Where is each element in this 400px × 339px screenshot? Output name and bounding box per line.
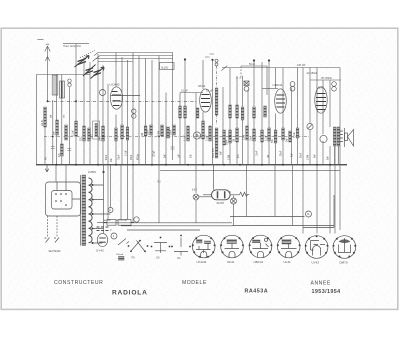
svg-text:10nF: 10nF xyxy=(251,135,253,141)
svg-text:ANNEE: ANNEE xyxy=(311,281,331,287)
resistor R18 xyxy=(196,108,199,118)
label Pour circuit PU overline xyxy=(63,43,89,45)
svg-text:25nF: 25nF xyxy=(227,139,229,145)
resistor zigzag xyxy=(240,192,250,196)
svg-text:5nF: 5nF xyxy=(221,150,223,155)
socket UBC41 base view xyxy=(249,235,273,258)
svg-text:1953/1954: 1953/1954 xyxy=(312,289,341,295)
socket UL41 base view xyxy=(277,235,301,258)
resistor R16 xyxy=(184,106,187,118)
wire top-right B+ xyxy=(222,67,340,69)
terminal block AL150 xyxy=(160,63,175,70)
svg-text:BT 250uF: BT 250uF xyxy=(322,77,333,80)
junction dots top xyxy=(47,58,271,173)
terminal TA circle xyxy=(306,211,312,217)
svg-text:40pF: 40pF xyxy=(106,154,108,160)
ganged link dotted xyxy=(80,51,95,58)
electrolytic box 10uF xyxy=(93,121,100,139)
svg-text:0,1uF: 0,1uF xyxy=(185,135,187,141)
svg-text:25nF: 25nF xyxy=(131,154,133,160)
registration tick top-left xyxy=(38,39,44,41)
svg-text:CONSTRUCTEUR: CONSTRUCTEUR xyxy=(54,280,103,286)
chassis arrow xyxy=(45,165,49,172)
svg-text:UCH42: UCH42 xyxy=(110,82,120,86)
wire lamp L1 lead xyxy=(195,200,197,223)
svg-text:8uF: 8uF xyxy=(328,155,330,160)
capacitor C3 xyxy=(51,146,55,148)
wafer switch PO xyxy=(128,240,149,253)
resistor R30 xyxy=(253,129,256,141)
capacitor C5 xyxy=(171,147,175,149)
wire ballast xyxy=(97,221,134,223)
wire IF link xyxy=(180,92,203,94)
resistor R9c xyxy=(126,127,129,140)
antenna xyxy=(45,44,50,61)
wire AF drops xyxy=(247,165,293,226)
svg-text:0,1uF: 0,1uF xyxy=(294,132,296,138)
svg-text:UBC41: UBC41 xyxy=(273,83,283,87)
resistor R36 xyxy=(289,131,292,142)
switch link dash-dot xyxy=(216,66,218,125)
wire detector link xyxy=(262,88,278,90)
svg-text:50uF: 50uF xyxy=(301,152,303,158)
AVC line dash-dot lower xyxy=(44,136,310,138)
IF transformer can circle xyxy=(193,132,200,139)
junction dots AVC lower xyxy=(52,136,231,138)
svg-text:6,3V: 6,3V xyxy=(192,190,197,192)
dial lamp L2 xyxy=(231,198,237,204)
transformer secondary winding xyxy=(89,178,93,243)
capacitor C4 xyxy=(67,148,71,150)
svg-text:1M: 1M xyxy=(268,155,270,158)
resistor R5 xyxy=(75,121,78,136)
svg-text:8uF: 8uF xyxy=(292,152,294,157)
ballast box 2 xyxy=(118,220,131,226)
vertical wires UF41 section xyxy=(180,60,248,194)
wire primary link xyxy=(310,79,341,81)
svg-text:0,5M: 0,5M xyxy=(159,131,161,136)
svg-text:25nF: 25nF xyxy=(281,150,283,156)
socket DM70 base view xyxy=(333,236,357,259)
thermistor circle xyxy=(111,233,117,239)
wire antenna to AVC line xyxy=(47,61,49,102)
resistor R22 xyxy=(223,130,226,145)
junction dot bus xyxy=(55,164,331,166)
svg-text:0,1uF: 0,1uF xyxy=(126,150,128,156)
resistor R13 xyxy=(167,127,170,138)
winding lead wires xyxy=(92,185,110,243)
tuning capacitor CV3 xyxy=(91,67,105,79)
trimmer C2 xyxy=(68,83,71,86)
svg-text:TC: TC xyxy=(228,192,231,194)
svg-text:50 uF: 50 uF xyxy=(249,63,256,66)
IF coil column xyxy=(215,88,218,115)
resistor R11 xyxy=(150,125,153,135)
resistor R1 xyxy=(44,107,47,127)
wire heater chain xyxy=(127,229,200,231)
svg-text:TA: TA xyxy=(307,213,310,216)
resistor R27 xyxy=(241,107,244,120)
svg-text:2N70: 2N70 xyxy=(217,201,225,205)
voltage selector box xyxy=(46,182,81,216)
AVC line dash-dot upper xyxy=(48,100,197,102)
tube UCH42 envelope xyxy=(110,87,140,109)
wire heater to sockets xyxy=(110,165,112,208)
resistor R26 xyxy=(236,128,239,142)
tuning capacitor CV2 xyxy=(83,65,96,77)
coil L2 box xyxy=(60,81,65,98)
svg-text:Pour circuit PU: Pour circuit PU xyxy=(64,44,81,48)
svg-text:250mA: 250mA xyxy=(116,253,123,256)
svg-text:RA453A: RA453A xyxy=(245,289,269,295)
dial lamp L1 xyxy=(193,194,211,200)
metal rectifier 2N70 xyxy=(203,190,240,200)
output transformer T2 xyxy=(333,127,339,165)
svg-text:ant: ant xyxy=(50,114,53,118)
resistor R24 xyxy=(229,130,232,143)
svg-text:UL41: UL41 xyxy=(284,260,292,264)
svg-text:UCH42: UCH42 xyxy=(197,260,207,264)
socket UY42 base view xyxy=(305,235,329,258)
resistor R23 xyxy=(229,105,232,118)
svg-text:UF41: UF41 xyxy=(227,260,235,264)
volume potentiometer circle xyxy=(307,123,313,129)
switch contact a xyxy=(215,59,218,62)
svg-text:UL41: UL41 xyxy=(317,85,325,89)
power transformer core xyxy=(80,175,85,246)
svg-text:UY42: UY42 xyxy=(312,260,320,264)
svg-text:1nF: 1nF xyxy=(179,153,181,158)
svg-text:DM70: DM70 xyxy=(340,260,348,264)
resistor R19 xyxy=(202,121,205,139)
resistor R35 xyxy=(282,128,285,140)
svg-text:RADIOLA: RADIOLA xyxy=(112,289,148,296)
svg-text:1M: 1M xyxy=(234,139,236,142)
resistor R31 xyxy=(261,130,264,142)
resistor R29 xyxy=(253,107,256,118)
secondary bus xyxy=(160,169,340,171)
wire lamp L2 lead xyxy=(233,196,235,226)
svg-text:AC 150uF: AC 150uF xyxy=(307,72,318,75)
resistor R33 xyxy=(268,128,271,141)
resistor R2 xyxy=(56,120,59,135)
svg-text:UBC41: UBC41 xyxy=(254,260,264,264)
wire PU drop xyxy=(75,44,77,165)
resistor R9b xyxy=(115,128,118,141)
wire rectifier drop xyxy=(213,165,215,190)
svg-text:10nF: 10nF xyxy=(257,150,259,156)
svg-text:MODELE: MODELE xyxy=(182,280,207,286)
power switch diagonal xyxy=(222,66,228,71)
resistor R14 xyxy=(173,125,176,135)
mains selector switch xyxy=(118,239,129,246)
vertical wires UBC41 section xyxy=(254,61,292,166)
mains lead dashed xyxy=(48,216,58,237)
svg-text:150pF: 150pF xyxy=(154,150,156,157)
terminal screw bottom xyxy=(332,87,337,92)
resistor R17 xyxy=(187,126,190,141)
vertical wires UL41 section xyxy=(298,68,341,234)
resistor R8 xyxy=(102,126,105,141)
rectifier UY42 xyxy=(97,233,107,246)
vertical component labels xyxy=(41,119,296,162)
resistor R25 xyxy=(236,105,239,118)
screen grid capacitor circle xyxy=(100,90,106,96)
svg-text:0,5M: 0,5M xyxy=(229,155,231,160)
tiny value labels xyxy=(49,44,348,264)
svg-text:PU: PU xyxy=(46,156,48,160)
resistor R10 xyxy=(144,126,147,136)
vertical wires UCH42 section xyxy=(116,53,173,223)
winding taps xyxy=(92,184,94,244)
wire bottom distribution xyxy=(104,223,233,226)
resistor R20 xyxy=(209,126,212,141)
svg-text:UF41: UF41 xyxy=(198,84,206,88)
padder dashed box xyxy=(235,66,268,95)
svg-text:2nF: 2nF xyxy=(54,130,56,135)
resistor R9 xyxy=(121,125,124,139)
tube UBC41 envelope xyxy=(275,89,287,113)
svg-text:5nF: 5nF xyxy=(315,153,317,158)
socket UF41 base view xyxy=(220,235,244,258)
fuse xyxy=(119,257,125,261)
socket UCH42 base view xyxy=(192,235,216,258)
main chassis bus xyxy=(36,164,347,166)
resistor R28 xyxy=(246,126,249,140)
rectifier feed wire xyxy=(103,165,105,233)
ballast box 1 xyxy=(107,220,116,226)
resistor R21 xyxy=(215,128,218,158)
dial lamp circle H xyxy=(108,208,113,213)
coil L1 box xyxy=(52,75,58,95)
svg-text:0,1 uF: 0,1 uF xyxy=(181,90,188,93)
wire selector feed a xyxy=(55,165,57,182)
svg-text:H: H xyxy=(109,208,111,212)
switch contact b xyxy=(215,63,218,66)
resistor R12 xyxy=(161,125,164,136)
svg-text:OC: OC xyxy=(177,258,181,260)
resistor R37 xyxy=(296,128,299,138)
resistor R32 xyxy=(264,106,267,117)
resistor R34 xyxy=(274,130,277,143)
svg-text:UY42: UY42 xyxy=(96,249,104,253)
wire selector feed b xyxy=(65,165,67,182)
tube UL41 envelope xyxy=(315,87,327,113)
loudspeaker HP xyxy=(340,128,354,147)
meter circle xyxy=(134,217,139,222)
trimmer pair circles xyxy=(132,109,136,118)
svg-text:ant 41: ant 41 xyxy=(41,119,44,126)
mains switch contacts xyxy=(45,238,60,243)
svg-text:10uF: 10uF xyxy=(91,133,93,139)
resistor R15 xyxy=(179,106,182,118)
svg-text:50pF: 50pF xyxy=(148,129,150,135)
wafer switch GO xyxy=(151,237,171,253)
svg-text:70pF: 70pF xyxy=(119,154,121,160)
svg-text:2x350V: 2x350V xyxy=(88,171,97,174)
wire bundle oscillator top xyxy=(96,53,173,62)
svg-text:0,1uF: 0,1uF xyxy=(73,130,75,136)
resistor R6 xyxy=(83,126,86,141)
svg-text:455kc: 455kc xyxy=(138,153,140,160)
svg-text:2nF: 2nF xyxy=(111,157,113,162)
vertical wires left section xyxy=(37,54,109,165)
resistor R4 xyxy=(65,125,68,140)
tube UF41 envelope xyxy=(200,89,212,112)
wire ballast drops xyxy=(108,165,128,220)
tuning capacitor CV1 xyxy=(75,56,90,68)
wire left AGC stub xyxy=(37,74,91,76)
svg-text:0,5M: 0,5M xyxy=(308,155,310,160)
wire antenna coil drop xyxy=(44,127,46,165)
svg-text:0,1uF: 0,1uF xyxy=(266,135,268,141)
svg-text:AL150: AL150 xyxy=(161,67,169,70)
svg-text:SECTEUR: SECTEUR xyxy=(49,250,61,253)
terminal screw top xyxy=(332,82,337,87)
extra value smudges xyxy=(46,114,330,256)
svg-text:0,1uF: 0,1uF xyxy=(207,135,209,141)
resistor R3 xyxy=(61,144,64,156)
trimmer C1 xyxy=(68,79,71,82)
wire bottom-right enclosure xyxy=(230,195,334,228)
tone capacitor circle xyxy=(320,135,327,142)
svg-text:0,1 uF: 0,1 uF xyxy=(206,90,213,93)
svg-text:AC350: AC350 xyxy=(104,219,111,222)
svg-text:0,5M: 0,5M xyxy=(244,135,246,140)
diode load circles xyxy=(290,82,295,92)
grid capacitor box with X xyxy=(244,81,249,91)
svg-text:UN 110.245: UN 110.245 xyxy=(116,220,128,222)
svg-text:1M: 1M xyxy=(142,133,144,136)
svg-text:5nF: 5nF xyxy=(287,137,289,142)
resistor R7 xyxy=(88,128,91,141)
oscillator coil hooks xyxy=(93,53,215,62)
terminal strip dashes xyxy=(97,227,109,231)
svg-text:25nF: 25nF xyxy=(171,129,173,135)
svg-text:5nF: 5nF xyxy=(100,136,102,141)
svg-text:50uF 50V: 50uF 50V xyxy=(213,148,215,158)
svg-text:GO: GO xyxy=(156,258,160,260)
wafer switch OC xyxy=(171,235,191,256)
svg-text:125 1W: 125 1W xyxy=(297,64,306,67)
svg-text:2nF: 2nF xyxy=(165,153,167,158)
svg-text:PO: PO xyxy=(132,258,136,260)
svg-text:PU: PU xyxy=(158,182,162,184)
